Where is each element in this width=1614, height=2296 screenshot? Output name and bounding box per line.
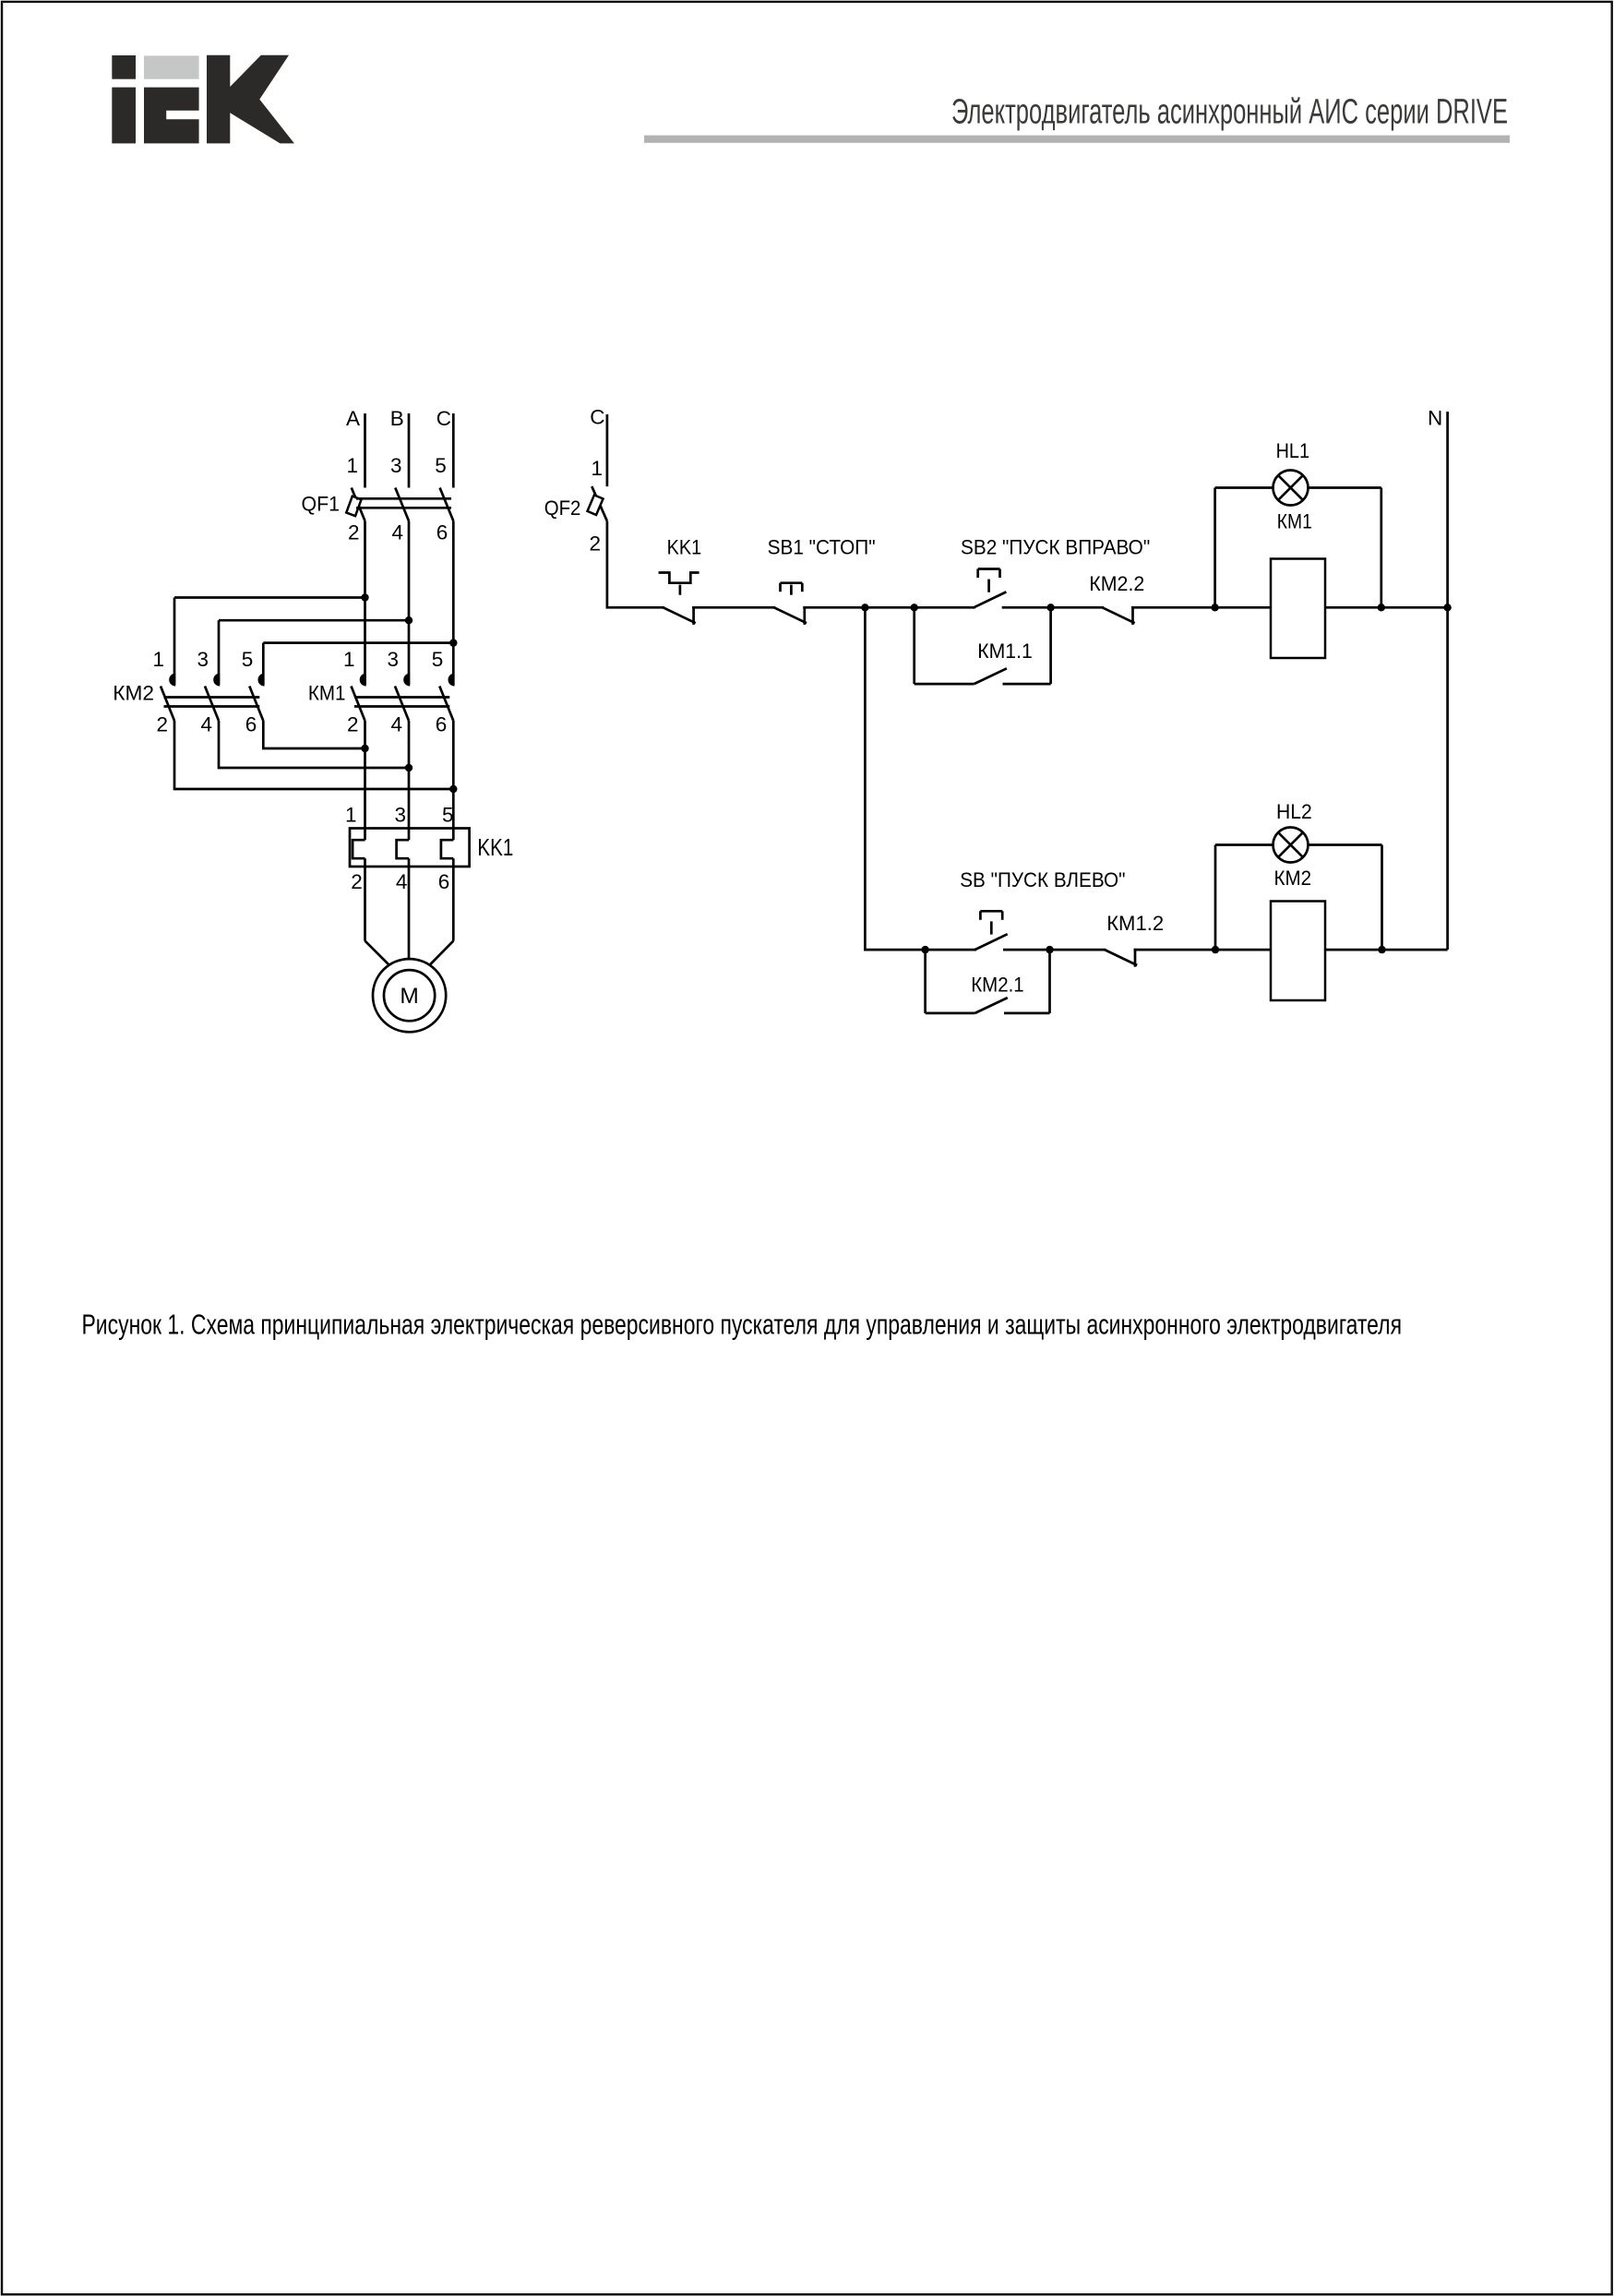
svg-text:2: 2 [156, 713, 168, 736]
svg-text:3: 3 [387, 648, 399, 671]
svg-text:3: 3 [197, 648, 209, 671]
svg-text:N: N [1428, 406, 1442, 429]
svg-text:4: 4 [396, 870, 408, 893]
svg-text:1: 1 [346, 454, 358, 477]
svg-text:1: 1 [343, 648, 355, 671]
svg-text:4: 4 [390, 713, 402, 736]
svg-text:HL2: HL2 [1276, 800, 1312, 823]
svg-text:2: 2 [351, 870, 363, 893]
svg-text:5: 5 [442, 804, 454, 827]
svg-text:2: 2 [589, 532, 601, 556]
svg-text:КМ1.2: КМ1.2 [1106, 912, 1164, 935]
svg-text:КМ2.2: КМ2.2 [1089, 572, 1144, 595]
svg-text:1: 1 [152, 648, 164, 671]
svg-text:КМ1.1: КМ1.1 [977, 640, 1033, 663]
svg-text:QF2: QF2 [544, 496, 581, 520]
svg-text:Рисунок 1. Схема принципиальна: Рисунок 1. Схема принципиальная электрич… [82, 1309, 1403, 1341]
svg-text:2: 2 [347, 713, 359, 736]
svg-text:5: 5 [435, 454, 447, 477]
svg-text:3: 3 [390, 454, 402, 477]
svg-text:КМ2.1: КМ2.1 [971, 973, 1024, 996]
svg-text:КМ1: КМ1 [308, 682, 346, 705]
svg-text:KK1: KK1 [477, 833, 513, 861]
svg-text:1: 1 [345, 804, 357, 827]
svg-text:SB "ПУСК ВЛЕВО": SB "ПУСК ВЛЕВО" [960, 868, 1125, 891]
svg-text:A: A [346, 407, 360, 430]
svg-text:M: M [400, 984, 418, 1009]
svg-text:SB1 "СТОП": SB1 "СТОП" [768, 536, 876, 559]
svg-text:C: C [436, 407, 451, 430]
svg-text:HL1: HL1 [1276, 439, 1309, 462]
svg-text:1: 1 [591, 457, 603, 480]
svg-text:5: 5 [432, 648, 444, 671]
svg-text:3: 3 [394, 804, 406, 827]
svg-text:C: C [590, 406, 604, 429]
svg-text:6: 6 [436, 713, 448, 736]
svg-text:2: 2 [348, 521, 360, 544]
svg-text:6: 6 [245, 713, 257, 736]
svg-text:5: 5 [242, 648, 254, 671]
svg-text:4: 4 [391, 521, 403, 544]
svg-text:КМ2: КМ2 [1274, 867, 1312, 890]
svg-text:QF1: QF1 [302, 493, 341, 516]
svg-text:КМ2: КМ2 [113, 682, 154, 705]
svg-text:6: 6 [438, 870, 450, 893]
svg-text:КМ1: КМ1 [1277, 509, 1312, 532]
svg-text:SB2 "ПУСК ВПРАВО": SB2 "ПУСК ВПРАВО" [961, 536, 1150, 559]
svg-text:4: 4 [200, 713, 212, 736]
svg-text:B: B [390, 407, 404, 430]
svg-text:Электродвигатель асинхронный А: Электродвигатель асинхронный АИС серии D… [951, 93, 1508, 132]
svg-text:KK1: KK1 [667, 536, 702, 559]
svg-text:6: 6 [436, 521, 448, 544]
